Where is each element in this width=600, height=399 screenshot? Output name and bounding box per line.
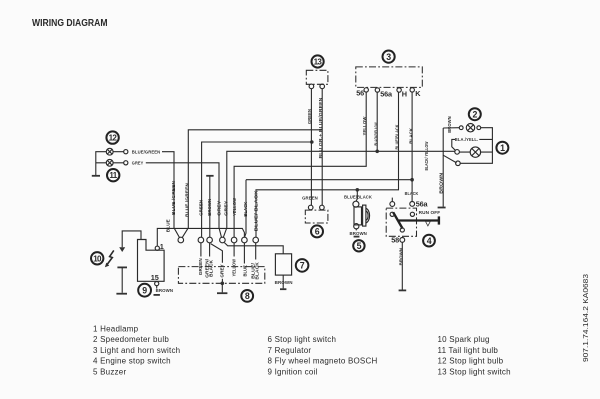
svg-text:5: 5 (357, 241, 362, 251)
wire BROWN magneto with top bar (209, 176, 211, 237)
svg-text:GREY: GREY (216, 201, 221, 216)
svg-text:BLUE/BLACK: BLUE/BLACK (394, 124, 399, 149)
svg-text:YELLOW: YELLOW (231, 258, 236, 276)
wire BLUE/GREEN from switch 13 horizontal+down (182, 130, 322, 238)
svg-text:BROWN: BROWN (349, 231, 367, 236)
svg-text:56a: 56a (416, 199, 429, 208)
regulator 7 (275, 254, 291, 275)
ground (bulbs 11/12) (92, 175, 100, 177)
svg-text:GREY: GREY (224, 201, 229, 216)
svg-text:3: 3 (386, 52, 391, 62)
svg-text:BROWN: BROWN (275, 280, 294, 285)
junction BLACK (410, 178, 414, 182)
svg-text:3 Light and horn switch: 3 Light and horn switch (93, 346, 180, 355)
svg-text:BLUE /GREEN: BLUE /GREEN (184, 182, 189, 217)
svg-text:GREY: GREY (132, 161, 144, 166)
svg-text:BLACK: BLACK (255, 262, 260, 280)
svg-text:1: 1 (160, 242, 164, 251)
svg-text:BLUE/ BLACK: BLUE/ BLACK (253, 190, 258, 232)
spark plug wire (122, 231, 141, 247)
svg-text:GREEN: GREEN (307, 108, 312, 124)
svg-text:7 Regulator: 7 Regulator (268, 346, 312, 355)
magneto internal wires (201, 243, 256, 283)
svg-text:BLUE: BLUE (165, 219, 170, 232)
ground (magneto) (221, 283, 223, 292)
svg-text:BLACK/ YELLOW: BLACK/ YELLOW (424, 141, 429, 170)
svg-text:BROWN: BROWN (438, 172, 443, 194)
svg-text:6 Stop light switch: 6 Stop light switch (268, 335, 337, 344)
svg-text:WIRING DIAGRAM: WIRING DIAGRAM (32, 18, 108, 29)
svg-text:K: K (415, 89, 421, 98)
wire BLU.GR switch13 to switch6 (321, 89, 323, 206)
stop light bulb 12 (106, 131, 128, 155)
svg-text:BLUE: BLUE (242, 265, 247, 277)
legend (93, 325, 511, 377)
junction BLACK/YELLOW on grey wire (375, 150, 379, 154)
svg-text:9 Ignition coil: 9 Ignition coil (268, 367, 318, 376)
svg-text:6: 6 (315, 227, 320, 237)
svg-text:13 Stop light switch: 13 Stop light switch (438, 367, 511, 376)
light and horn switch 3 (356, 67, 423, 88)
magneto label 8 (241, 290, 253, 302)
svg-text:BROWN: BROWN (398, 247, 403, 265)
svg-text:BLA./YELL.: BLA./YELL. (455, 137, 479, 142)
svg-text:8: 8 (245, 291, 250, 301)
vertical wire labels (165, 97, 452, 280)
wire GREY from bulb 11 down to magneto connector (146, 163, 222, 238)
svg-text:58: 58 (391, 236, 399, 245)
svg-text:4: 4 (427, 236, 432, 246)
svg-text:11 Tail light bulb: 11 Tail light bulb (438, 346, 499, 355)
svg-text:11: 11 (109, 171, 117, 180)
wire BLUE/BLACK magneto to terminal H (256, 92, 399, 237)
junction GREEN (310, 140, 314, 144)
stop light switch 6 (305, 210, 328, 223)
svg-text:BROWN: BROWN (447, 116, 452, 133)
svg-text:BLUE/GREEN: BLUE/GREEN (132, 149, 161, 154)
ground (coil 15) (156, 286, 158, 289)
svg-text:4 Engine stop switch: 4 Engine stop switch (93, 357, 171, 366)
lightning bolt (107, 250, 114, 264)
svg-text:56a: 56a (380, 89, 393, 98)
svg-text:BROWN: BROWN (156, 288, 174, 293)
wire GREY tap to regulator (224, 243, 283, 254)
svg-text:BLACK: BLACK (405, 191, 419, 196)
svg-text:BLACK: BLACK (243, 201, 248, 217)
svg-text:5 Buzzer: 5 Buzzer (93, 367, 126, 376)
ignition coil 9 (138, 240, 165, 282)
svg-text:RUN OFF: RUN OFF (419, 210, 441, 215)
wire BLUE/GREEN from bulb 12 down to magneto connector (162, 152, 179, 238)
svg-text:13: 13 (314, 58, 323, 67)
coil label 9 (138, 284, 151, 297)
svg-text:1: 1 (500, 143, 505, 153)
svg-text:GREY: GREY (220, 264, 225, 278)
stop light switch 13 (306, 70, 328, 84)
junction magneto ground (221, 282, 225, 286)
svg-text:BROWN: BROWN (207, 198, 212, 216)
svg-text:2: 2 (473, 110, 478, 120)
svg-text:12: 12 (109, 134, 118, 143)
wire bulb12 terminal stubs (113, 152, 124, 163)
junction buzzer (356, 188, 360, 192)
svg-text:BLUE/BLACK: BLUE/BLACK (344, 195, 373, 200)
wire buzzer stub (356, 190, 357, 201)
wire YELLOW magneto to terminal 56 (234, 92, 366, 237)
svg-text:2 Speedometer bulb: 2 Speedometer bulb (93, 335, 169, 344)
BLA./YELL. leader (452, 139, 493, 150)
contacts (455, 150, 460, 155)
tail light bulb 11 (106, 159, 128, 181)
svg-text:YELLOW: YELLOW (362, 116, 367, 136)
svg-text:15: 15 (151, 273, 159, 282)
svg-text:1 Headlamp: 1 Headlamp (93, 325, 139, 334)
wire GREY magneto long to headlamp switch (223, 151, 454, 237)
svg-text:BLUE /GREEN: BLUE /GREEN (171, 180, 176, 215)
svg-text:9: 9 (142, 286, 147, 296)
svg-text:8 Fly wheel magneto BOSCH: 8 Fly wheel magneto BOSCH (268, 357, 378, 366)
svg-text:BLU.GR.+ BLUE/GREEN: BLU.GR.+ BLUE/GREEN (318, 97, 323, 159)
wire BLACK magneto to junction (245, 180, 413, 237)
headlamp switch rail BROWN to ground (442, 128, 444, 207)
magneto connector circles (178, 237, 184, 243)
svg-text:BLACK: BLACK (408, 127, 413, 144)
svg-text:GREEN: GREEN (198, 258, 203, 276)
headlamp 1 (496, 142, 508, 154)
svg-text:GREEN: GREEN (302, 196, 318, 201)
wire bulb rail to ground (96, 152, 107, 176)
svg-text:YELLOW: YELLOW (232, 197, 237, 216)
svg-text:12 Stop light bulb: 12 Stop light bulb (438, 357, 504, 366)
wire BLACK/YELLOW terminal 56a down (376, 92, 378, 151)
wire BLACK terminal K to stop switch 56a (411, 92, 413, 201)
svg-text:907.1.74.164.2 KA0683: 907.1.74.164.2 KA0683 (581, 274, 590, 362)
svg-text:BLACK/YELLOW: BLACK/YELLOW (373, 122, 378, 145)
switch arm (443, 155, 456, 163)
svg-text:H: H (402, 90, 407, 99)
wire GREEN switch13 to switch6 (310, 89, 312, 206)
svg-text:56: 56 (356, 88, 364, 97)
svg-text:GREEN: GREEN (198, 199, 203, 216)
svg-text:10: 10 (93, 254, 102, 263)
svg-text:BLACK: BLACK (209, 259, 214, 277)
wire BLUE ignition coil to magneto connector (157, 228, 244, 245)
spark plug 10 (117, 266, 127, 268)
svg-text:10 Spark plug: 10 Spark plug (438, 335, 490, 344)
speedometer bulb 2 (469, 108, 481, 120)
fly wheel magneto BOSCH 8 box (178, 267, 264, 284)
wire GREEN magneto to node (202, 142, 312, 237)
svg-text:7: 7 (300, 261, 305, 271)
